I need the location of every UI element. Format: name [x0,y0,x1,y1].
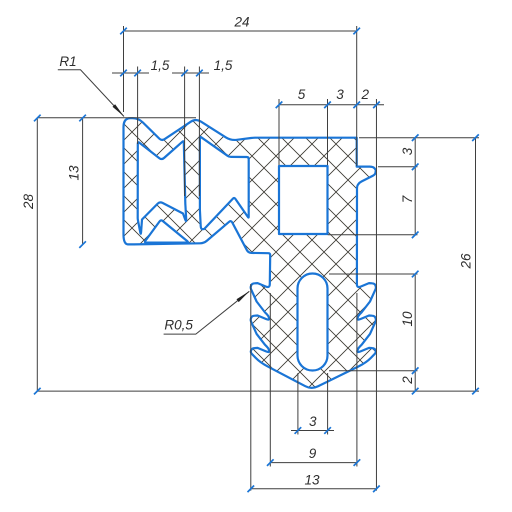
dimension 13 (left section height) [82,118,84,245]
svg-text:1,5: 1,5 [214,58,233,73]
svg-text:5: 5 [298,87,306,102]
svg-text:13: 13 [304,473,320,488]
svg-text:3: 3 [309,414,317,429]
dimension 1,5 (left wall thickness) [112,67,149,145]
dimension 3 (oval hole width) [291,373,334,435]
dimension 1,5 (middle wall thickness) [172,67,209,197]
dimension chain 10 / 2 (right lower) [329,274,418,391]
rectangular hole 5x7 [279,166,328,234]
svg-text:10: 10 [400,311,415,327]
dimension 26 (overall height, right) [475,138,477,391]
svg-text:1,5: 1,5 [151,58,170,73]
svg-text:2: 2 [361,87,370,102]
svg-text:26: 26 [459,253,474,270]
oval (stadium) hole 3x10 in anchor stem [298,274,328,371]
seal profile outer contour (crosshatched rubber material) [124,118,376,388]
svg-text:R1: R1 [59,54,76,69]
svg-text:2: 2 [400,376,415,385]
leader R1 (top-left corner radius callout) [58,70,124,117]
svg-text:9: 9 [309,446,317,461]
dimension 28 (overall height, left) [37,118,479,391]
svg-text:R0,5: R0,5 [164,318,193,333]
svg-text:7: 7 [400,195,415,203]
svg-text:24: 24 [233,15,249,30]
triangular slot under chamber C1 (R0.5 thin walls) [145,220,188,242]
svg-text:3: 3 [400,147,415,155]
dimension 9 (stem width) [270,293,357,467]
svg-text:13: 13 [67,165,82,181]
dimension chain 3 / 7 (right upper) [328,138,479,235]
hollow chamber C1 (left, zig-zag top and bottom) [138,141,187,233]
hollow chamber C2 (sloped roof) [200,137,249,229]
svg-text:28: 28 [21,194,36,211]
dimension 24 (overall top width) [124,26,357,166]
dimension chain 5 / 3 / 2 (top right) [279,99,384,168]
dimension 13 (width over barbs) [251,168,377,491]
leader R0,5 (barb tip radius callout) [164,291,250,334]
svg-text:3: 3 [336,87,344,102]
